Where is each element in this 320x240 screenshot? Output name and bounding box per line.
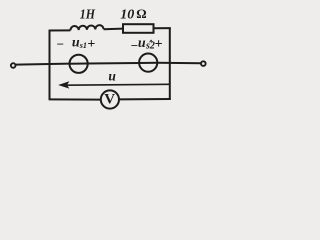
wire: inductor to resistor	[104, 28, 123, 31]
scan artifact: small hat over subscript 2 of us2	[150, 40, 153, 42]
source us2 circle	[139, 54, 157, 72]
wire: middle rail left segment (terminal to source 1)	[16, 64, 70, 65]
svg-text:V: V	[104, 92, 115, 108]
wire: chord through source 1	[70, 63, 88, 65]
wire: resistor to top-right corner	[154, 27, 171, 29]
svg-text:1H: 1H	[80, 8, 96, 23]
node: right terminal	[201, 61, 206, 66]
wire: chord through source 2	[139, 62, 157, 64]
svg-text:+: +	[155, 37, 163, 52]
wire: rectangle left edge	[49, 30, 51, 100]
inductor L (1H)	[70, 25, 103, 30]
voltmeter V circle	[101, 90, 119, 108]
node: left terminal	[11, 63, 16, 68]
svg-text:10Ω: 10Ω	[120, 6, 146, 23]
wire: voltmeter to bottom-right corner	[119, 98, 171, 100]
svg-text:−: −	[57, 36, 64, 51]
wire: middle rail right segment (source 2 to terminal)	[157, 62, 201, 65]
wire: between sources	[88, 62, 139, 65]
source us1 circle	[70, 55, 88, 73]
wire: bottom-left to voltmeter	[49, 98, 101, 100]
wire: rectangle right edge	[169, 28, 171, 99]
svg-text:+: +	[87, 37, 95, 52]
wire: top-left to inductor	[49, 29, 71, 31]
arrow for voltage u (points left)	[59, 82, 169, 88]
svg-text:u: u	[108, 69, 116, 84]
background paper	[0, 0, 216, 119]
resistor R 10ohm body	[123, 24, 154, 33]
